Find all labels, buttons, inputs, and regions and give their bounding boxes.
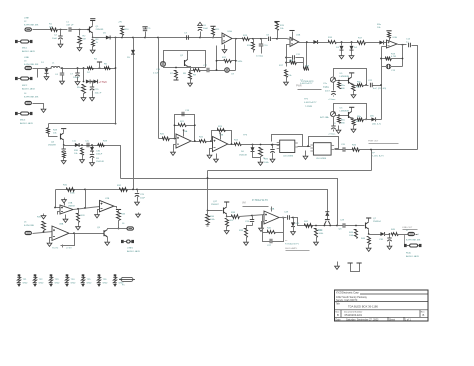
svg-text:TL072: TL072 xyxy=(52,248,59,250)
svg-text:100u F: 100u F xyxy=(95,93,102,95)
svg-text:+V bias: +V bias xyxy=(328,99,336,101)
svg-text:GND: GND xyxy=(87,282,92,284)
svg-text:2N5089: 2N5089 xyxy=(96,29,104,31)
svg-text:MIC3: MIC3 xyxy=(20,120,26,122)
svg-text:AUDIO JACK: AUDIO JACK xyxy=(22,88,36,91)
svg-text:SHLD AMPL: SHLD AMPL xyxy=(285,247,298,250)
svg-text:AUDIO JACK: AUDIO JACK xyxy=(20,122,34,125)
svg-text:GND: GND xyxy=(55,282,60,284)
svg-text:E-PHONE J8K: E-PHONE J8K xyxy=(24,64,39,66)
svg-text:LINE-OUT: LINE-OUT xyxy=(402,227,413,229)
svg-text:E-PHONE: E-PHONE xyxy=(24,225,35,227)
svg-text:AUDIO JACK: AUDIO JACK xyxy=(127,250,141,253)
svg-text:4.7M: 4.7M xyxy=(391,56,396,58)
svg-text:10uF: 10uF xyxy=(52,38,58,40)
svg-text:2N3904: 2N3904 xyxy=(373,221,381,223)
svg-text:U8A: U8A xyxy=(59,223,64,226)
svg-text:0.0022uF/TY: 0.0022uF/TY xyxy=(304,102,317,104)
svg-text:U1A: U1A xyxy=(228,30,233,33)
svg-text:TDA BLED BOX 36-1186: TDA BLED BOX 36-1186 xyxy=(348,305,378,309)
svg-text:B: B xyxy=(337,313,339,317)
svg-text:LM358: LM358 xyxy=(68,206,75,208)
svg-text:E-PHONE J8K: E-PHONE J8K xyxy=(406,240,421,242)
svg-text:LINE: LINE xyxy=(24,18,29,20)
svg-text:P-TDA1 W-TV: P-TDA1 W-TV xyxy=(252,199,268,202)
svg-text:P-TDA1 W-TV: P-TDA1 W-TV xyxy=(285,242,299,245)
svg-text:U7A: U7A xyxy=(68,202,73,205)
svg-text:.047 uF: .047 uF xyxy=(66,25,74,27)
svg-text:4u7, (212-45): 4u7, (212-45) xyxy=(373,88,386,90)
svg-text:U1B: U1B xyxy=(296,35,301,37)
svg-text:2N5089: 2N5089 xyxy=(48,145,56,147)
svg-text:0.0022uF/TY: 0.0022uF/TY xyxy=(300,83,313,85)
svg-text:Sheet: Sheet xyxy=(389,318,395,321)
svg-text:100uF: 100uF xyxy=(96,154,103,156)
svg-text:GND: GND xyxy=(39,282,44,284)
svg-text:GND: GND xyxy=(23,282,28,284)
svg-text:PWR OUT: PWR OUT xyxy=(368,141,379,143)
svg-text:B4T-18A: B4T-18A xyxy=(320,116,329,119)
svg-text:1N4148: 1N4148 xyxy=(239,155,247,157)
svg-text:B: B xyxy=(423,313,425,317)
svg-text:nn: nn xyxy=(285,240,287,242)
svg-text:RCA: RCA xyxy=(406,252,411,255)
svg-text:+V bias: +V bias xyxy=(328,134,336,136)
svg-text:LINE1: LINE1 xyxy=(127,248,134,250)
svg-text:U3B: U3B xyxy=(219,135,224,137)
svg-text:Document Number: Document Number xyxy=(344,310,363,313)
svg-text:GND: GND xyxy=(103,282,108,284)
svg-text:VM: VM xyxy=(242,202,246,205)
svg-text:1M: 1M xyxy=(83,39,86,41)
svg-text:Title: Title xyxy=(336,302,341,305)
svg-text:10uF: 10uF xyxy=(140,198,146,200)
svg-text:U7B: U7B xyxy=(105,198,110,200)
svg-text:7-16V, B-TV: 7-16V, B-TV xyxy=(372,156,384,158)
svg-text:P-PWR-WTF: P-PWR-WTF xyxy=(301,81,314,83)
svg-text:1 of 1: 1 of 1 xyxy=(405,319,411,321)
svg-text:GND: GND xyxy=(71,282,76,284)
svg-text:LM3080N: LM3080N xyxy=(340,76,350,78)
svg-text:±7.5V: ±7.5V xyxy=(66,248,72,250)
svg-text:U4 LM386: U4 LM386 xyxy=(283,156,294,158)
svg-text:U5 LM386: U5 LM386 xyxy=(316,158,327,160)
svg-text:100uF: 100uF xyxy=(73,77,80,79)
svg-text:AUDIO JACK: AUDIO JACK xyxy=(22,50,36,53)
svg-text:10uF: 10uF xyxy=(203,28,209,30)
svg-text:0.1uF: 0.1uF xyxy=(153,73,159,75)
svg-text:+9V: +9V xyxy=(118,22,122,24)
svg-text:E-PHONE J8K: E-PHONE J8K xyxy=(24,97,39,99)
svg-text:MIC2: MIC2 xyxy=(22,85,28,87)
svg-text:05116203-E01: 05116203-E01 xyxy=(345,313,363,317)
svg-text:LM3080N: LM3080N xyxy=(340,111,350,113)
svg-text:1N4148: 1N4148 xyxy=(96,161,104,163)
svg-text:T-PWR: T-PWR xyxy=(305,106,312,108)
svg-text:+7.5Vrr: +7.5Vrr xyxy=(99,80,108,84)
svg-text:2N5087: 2N5087 xyxy=(211,204,219,206)
svg-text:Date:: Date: xyxy=(336,318,342,321)
svg-text:Saturday, September 27, 2003: Saturday, September 27, 2003 xyxy=(346,318,379,321)
svg-text:14 Vpp: 14 Vpp xyxy=(256,56,264,58)
svg-text:AUDIO JACK: AUDIO JACK xyxy=(406,255,420,258)
svg-text:4017: 4017 xyxy=(325,91,331,93)
svg-text:E-PHONE J8K: E-PHONE J8K xyxy=(24,25,39,27)
svg-text:XYZ Electronic Corp: XYZ Electronic Corp xyxy=(336,292,359,295)
svg-text:U2A: U2A xyxy=(393,36,398,39)
svg-text:U9A: U9A xyxy=(270,208,275,211)
svg-text:MIC1: MIC1 xyxy=(22,48,28,50)
svg-text:LINE: LINE xyxy=(24,57,29,59)
svg-text:(24L 4-7): (24L 4-7) xyxy=(372,123,381,125)
svg-text:PWR: PWR xyxy=(296,85,302,88)
